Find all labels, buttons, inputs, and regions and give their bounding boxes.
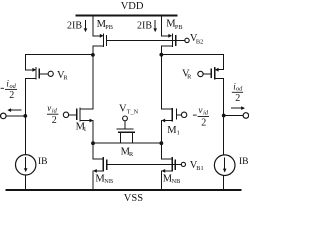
svg-text:PB: PB [175,24,183,31]
svg-text:R: R [187,73,192,80]
svg-text:VSS: VSS [124,193,143,203]
svg-text:2: 2 [9,90,14,101]
svg-text:id: id [203,110,209,117]
svg-text:1: 1 [83,126,86,133]
svg-text:IB: IB [38,157,48,167]
svg-text:B1: B1 [196,165,203,172]
svg-text:B2: B2 [196,39,203,46]
svg-text:VDD: VDD [121,1,144,12]
svg-text:NB: NB [172,178,181,185]
svg-text:od: od [236,86,243,93]
svg-text:v: v [47,103,51,113]
svg-text:T_N: T_N [127,109,139,116]
svg-text:2: 2 [201,118,206,129]
svg-text:R: R [63,75,68,82]
svg-text:od: od [10,83,17,90]
svg-text:R: R [129,151,134,158]
svg-text:1: 1 [177,129,180,136]
svg-text:NB: NB [104,178,113,185]
svg-text:v: v [199,105,203,115]
svg-text:2: 2 [235,93,240,104]
svg-text:id: id [52,107,58,114]
svg-text:IB: IB [239,157,249,167]
svg-text:2IB: 2IB [67,21,82,32]
svg-text:2: 2 [52,115,57,126]
svg-text:2IB: 2IB [137,21,152,32]
svg-text:PB: PB [105,24,113,31]
